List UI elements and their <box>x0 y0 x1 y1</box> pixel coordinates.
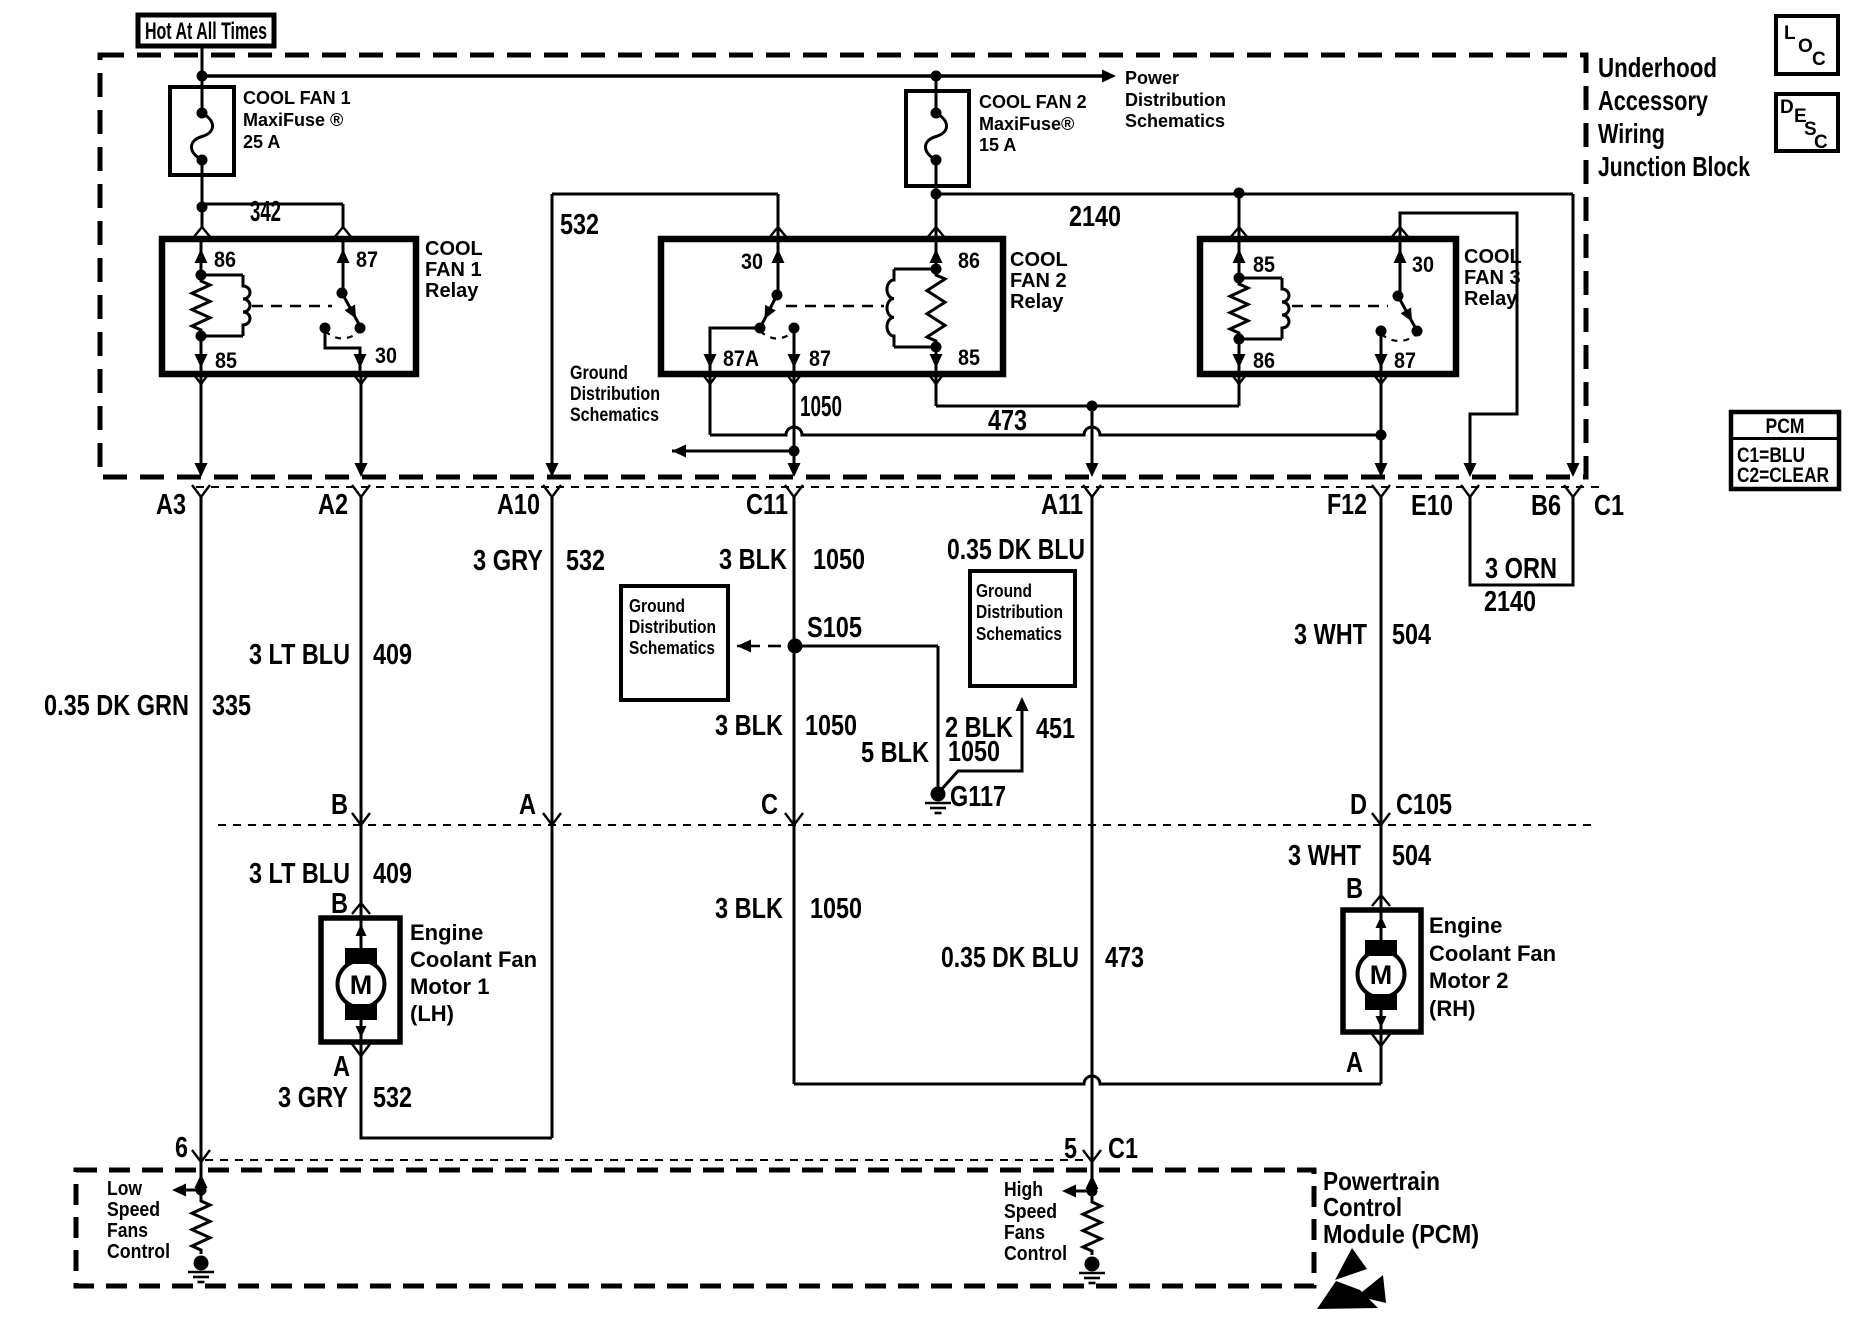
svg-text:532: 532 <box>373 1082 412 1114</box>
svg-text:Underhood: Underhood <box>1598 52 1717 83</box>
svg-text:COOL: COOL <box>1464 246 1522 268</box>
svg-text:D: D <box>1350 789 1367 821</box>
svg-text:C: C <box>1812 49 1826 70</box>
svg-text:409: 409 <box>373 858 412 890</box>
svg-text:S105: S105 <box>807 612 862 644</box>
svg-text:504: 504 <box>1392 619 1431 651</box>
svg-text:87: 87 <box>809 346 831 371</box>
svg-text:87: 87 <box>1394 348 1416 373</box>
svg-text:86: 86 <box>958 248 980 273</box>
svg-text:F12: F12 <box>1327 489 1367 521</box>
svg-text:Motor 1: Motor 1 <box>410 974 489 999</box>
svg-text:Schematics: Schematics <box>1125 111 1225 131</box>
svg-text:D: D <box>1780 97 1794 118</box>
svg-text:Low: Low <box>107 1178 142 1200</box>
svg-text:1050: 1050 <box>800 391 842 423</box>
svg-text:3 ORN: 3 ORN <box>1485 553 1557 585</box>
svg-text:Ground: Ground <box>976 581 1032 601</box>
svg-text:Relay: Relay <box>1010 291 1064 313</box>
svg-text:B: B <box>331 789 348 821</box>
svg-text:COOL: COOL <box>425 238 483 260</box>
svg-text:85: 85 <box>1253 252 1275 277</box>
svg-text:30: 30 <box>741 249 763 274</box>
svg-text:3 LT BLU: 3 LT BLU <box>249 858 350 890</box>
svg-text:473: 473 <box>988 405 1027 437</box>
svg-text:COOL FAN 2: COOL FAN 2 <box>979 92 1087 112</box>
svg-text:30: 30 <box>1412 252 1434 277</box>
svg-text:Control: Control <box>1004 1243 1067 1265</box>
svg-text:E10: E10 <box>1411 490 1453 522</box>
svg-text:3 LT BLU: 3 LT BLU <box>249 639 350 671</box>
svg-text:Control: Control <box>1323 1192 1402 1222</box>
svg-text:PCM: PCM <box>1766 415 1805 438</box>
svg-text:Engine: Engine <box>410 920 483 945</box>
svg-text:FAN 1: FAN 1 <box>425 259 482 281</box>
svg-text:Coolant Fan: Coolant Fan <box>410 947 537 972</box>
svg-text:25 A: 25 A <box>243 132 280 152</box>
svg-text:5: 5 <box>1064 1133 1077 1165</box>
svg-text:0.35 DK BLU: 0.35 DK BLU <box>947 534 1085 566</box>
svg-text:Motor 2: Motor 2 <box>1429 968 1508 993</box>
svg-text:85: 85 <box>958 345 980 370</box>
svg-text:87: 87 <box>356 247 378 272</box>
svg-text:3 BLK: 3 BLK <box>719 544 787 576</box>
svg-text:Wiring: Wiring <box>1598 118 1665 149</box>
svg-text:Accessory: Accessory <box>1598 85 1708 116</box>
svg-text:Control: Control <box>107 1241 170 1263</box>
svg-text:Ground: Ground <box>570 363 628 384</box>
svg-text:2140: 2140 <box>1484 586 1536 618</box>
svg-text:A3: A3 <box>156 489 186 521</box>
svg-text:(RH): (RH) <box>1429 996 1475 1021</box>
svg-text:30: 30 <box>375 343 397 368</box>
svg-text:473: 473 <box>1105 942 1144 974</box>
svg-text:G117: G117 <box>950 781 1006 813</box>
svg-text:Distribution: Distribution <box>976 602 1063 622</box>
svg-text:0.35 DK BLU: 0.35 DK BLU <box>941 942 1079 974</box>
svg-text:A: A <box>333 1051 350 1083</box>
svg-text:15 A: 15 A <box>979 135 1016 155</box>
svg-text:C2=CLEAR: C2=CLEAR <box>1737 464 1829 487</box>
svg-text:Engine: Engine <box>1429 913 1502 938</box>
svg-text:C1: C1 <box>1108 1133 1138 1165</box>
svg-text:3 BLK: 3 BLK <box>715 710 783 742</box>
svg-text:85: 85 <box>215 348 237 373</box>
svg-text:Coolant Fan: Coolant Fan <box>1429 941 1556 966</box>
svg-text:B: B <box>331 888 348 920</box>
svg-text:504: 504 <box>1392 840 1431 872</box>
svg-text:COOL FAN 1: COOL FAN 1 <box>243 88 351 108</box>
svg-text:Speed: Speed <box>107 1199 160 1221</box>
svg-text:1050: 1050 <box>813 544 865 576</box>
svg-text:Schematics: Schematics <box>976 624 1062 644</box>
svg-text:5 BLK: 5 BLK <box>861 737 929 769</box>
svg-text:1050: 1050 <box>948 736 1000 768</box>
svg-text:COOL: COOL <box>1010 249 1068 271</box>
svg-text:3 GRY: 3 GRY <box>473 545 543 577</box>
svg-text:86: 86 <box>1253 348 1275 373</box>
svg-text:Power: Power <box>1125 68 1179 88</box>
svg-text:Module (PCM): Module (PCM) <box>1323 1219 1479 1249</box>
svg-text:(LH): (LH) <box>410 1001 454 1026</box>
svg-text:6: 6 <box>175 1132 188 1164</box>
svg-text:Fans: Fans <box>107 1220 148 1242</box>
svg-text:Speed: Speed <box>1004 1201 1057 1223</box>
svg-text:532: 532 <box>560 209 599 241</box>
svg-text:O: O <box>1798 36 1813 57</box>
svg-text:Relay: Relay <box>1464 288 1518 310</box>
svg-text:3 WHT: 3 WHT <box>1294 619 1367 651</box>
svg-text:Schematics: Schematics <box>629 638 715 658</box>
svg-text:3 BLK: 3 BLK <box>715 893 783 925</box>
svg-text:335: 335 <box>212 690 251 722</box>
svg-text:B6: B6 <box>1531 490 1561 522</box>
svg-text:1050: 1050 <box>810 893 862 925</box>
svg-text:M: M <box>1370 960 1393 990</box>
svg-text:A2: A2 <box>318 489 348 521</box>
svg-text:86: 86 <box>214 247 236 272</box>
svg-text:L: L <box>1784 23 1796 44</box>
svg-text:C1: C1 <box>1594 490 1624 522</box>
svg-text:Distribution: Distribution <box>1125 90 1226 110</box>
svg-text:FAN 3: FAN 3 <box>1464 267 1521 289</box>
svg-text:1050: 1050 <box>805 710 857 742</box>
svg-text:3 WHT: 3 WHT <box>1288 840 1361 872</box>
svg-text:C: C <box>1814 132 1828 153</box>
svg-text:532: 532 <box>566 545 605 577</box>
svg-text:Relay: Relay <box>425 280 479 302</box>
svg-text:87A: 87A <box>723 346 759 371</box>
svg-text:C: C <box>761 789 778 821</box>
svg-text:C105: C105 <box>1396 789 1452 821</box>
svg-text:MaxiFuse ®: MaxiFuse ® <box>243 110 343 130</box>
svg-text:A11: A11 <box>1041 489 1083 521</box>
svg-text:3 GRY: 3 GRY <box>278 1082 348 1114</box>
svg-text:0.35 DK GRN: 0.35 DK GRN <box>44 690 189 722</box>
svg-text:A10: A10 <box>497 489 540 521</box>
svg-text:Schematics: Schematics <box>570 405 659 426</box>
svg-text:Ground: Ground <box>629 596 685 616</box>
svg-text:High: High <box>1004 1179 1043 1201</box>
svg-text:A: A <box>1346 1047 1363 1079</box>
svg-text:Distribution: Distribution <box>629 617 716 637</box>
svg-text:2140: 2140 <box>1069 201 1121 233</box>
svg-text:Fans: Fans <box>1004 1222 1045 1244</box>
svg-text:Junction Block: Junction Block <box>1598 151 1750 182</box>
svg-text:FAN 2: FAN 2 <box>1010 270 1067 292</box>
svg-text:Hot At All Times: Hot At All Times <box>145 18 267 45</box>
svg-text:Distribution: Distribution <box>570 384 660 405</box>
svg-text:MaxiFuse®: MaxiFuse® <box>979 114 1074 134</box>
svg-text:M: M <box>350 970 373 1000</box>
svg-text:C11: C11 <box>746 489 788 521</box>
svg-text:342: 342 <box>250 196 281 228</box>
svg-text:A: A <box>519 789 536 821</box>
svg-text:409: 409 <box>373 639 412 671</box>
svg-text:B: B <box>1346 873 1363 905</box>
svg-text:451: 451 <box>1036 713 1075 745</box>
